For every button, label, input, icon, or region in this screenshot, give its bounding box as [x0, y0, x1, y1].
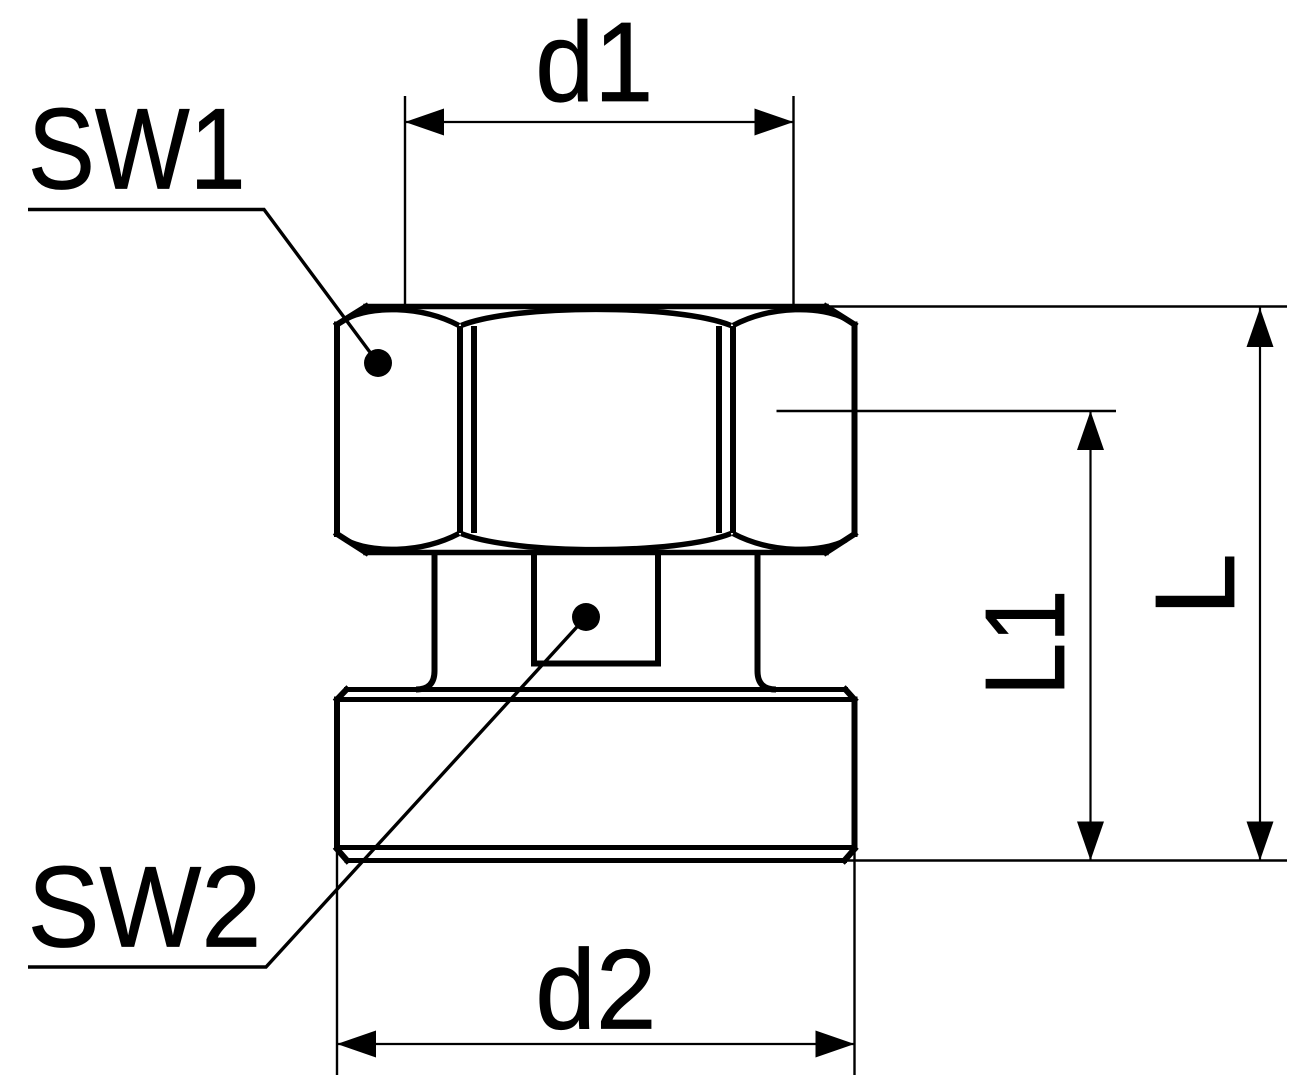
- hex chamfer arcs bottom: [346, 534, 846, 550]
- svg-text:L1: L1: [962, 590, 1088, 696]
- bottom extension line shared by L and L1: [843, 859, 1287, 861]
- svg-text:SW1: SW1: [28, 86, 246, 214]
- SW2 leader dot: [572, 603, 600, 631]
- L arrow bottom: [1247, 822, 1274, 861]
- SW2 leader line: [28, 617, 586, 967]
- hex chamfer arcs top: [346, 309, 846, 325]
- d2 extension lines: [337, 849, 855, 1075]
- d2 arrow left: [337, 1031, 376, 1058]
- L1 arrow top: [1077, 411, 1104, 450]
- svg-text:L: L: [1132, 553, 1258, 616]
- hex face boundary double lines: [460, 326, 733, 533]
- hex nut body outline: [337, 307, 855, 553]
- svg-text:SW2: SW2: [28, 844, 262, 972]
- SW1 leader line: [28, 210, 378, 364]
- L arrow top: [1247, 308, 1274, 347]
- L top extension line: [827, 305, 1287, 307]
- square drive pocket: [534, 550, 658, 664]
- d1 arrow right: [755, 109, 794, 136]
- d2 arrow right: [816, 1031, 855, 1058]
- d1 dimension line: [405, 121, 794, 123]
- cylinder body: [337, 690, 855, 861]
- L1 dimension line: [1089, 411, 1091, 861]
- SW1 leader dot: [364, 349, 392, 377]
- d1 arrow left: [405, 109, 444, 136]
- svg-text:d2: d2: [535, 927, 656, 1053]
- d1 extension lines: [405, 96, 794, 307]
- L1 top extension line: [777, 410, 1117, 412]
- d2 dimension line: [337, 1043, 855, 1045]
- svg-text:d1: d1: [535, 0, 653, 125]
- L1 arrow bottom: [1077, 822, 1104, 861]
- neck with fillets: [416, 553, 776, 690]
- L dimension line: [1259, 307, 1261, 861]
